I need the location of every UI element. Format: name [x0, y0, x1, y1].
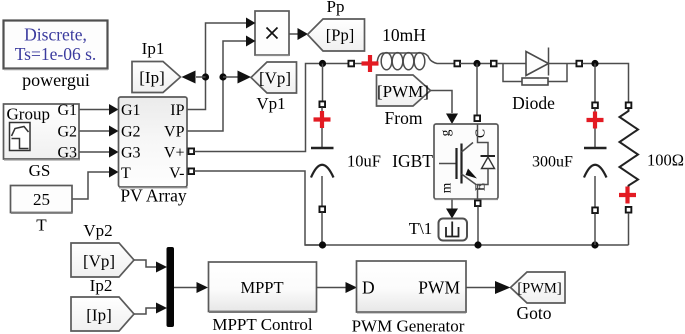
- node bottom emitter junction: [474, 241, 481, 248]
- wire MPPT to PWM generator: [317, 282, 358, 293]
- terminator T\1: [439, 219, 468, 241]
- svg-text:PWM Generator: PWM Generator: [352, 317, 465, 334]
- red plus 10uF: [314, 111, 331, 128]
- port square IGBT collector: [474, 115, 480, 121]
- node VP junction: [219, 73, 226, 80]
- svg-text:[PWM]: [PWM]: [517, 281, 561, 297]
- wire Vp2 to mux: [134, 260, 167, 273]
- svg-text:[Ip]: [Ip]: [86, 306, 111, 325]
- svg-text:Pp: Pp: [327, 0, 345, 16]
- red plus resistor: [619, 187, 636, 204]
- PWM generator block: [357, 261, 467, 312]
- svg-text:C: C: [473, 129, 488, 138]
- wire emitter to bottom rail: [477, 207, 479, 246]
- svg-text:25: 25: [33, 190, 50, 209]
- from tag Ip2: [71, 297, 134, 331]
- goto tag PWM: [511, 272, 566, 303]
- wire Ip2 to mux: [134, 303, 167, 315]
- node bottom 10uF junction: [319, 241, 326, 248]
- svg-text:Ip1: Ip1: [142, 39, 165, 58]
- constant block T=25: [11, 186, 73, 214]
- capacitor C2 300uF: [584, 109, 607, 208]
- resistor R1 100 ohm: [620, 109, 639, 189]
- red plus 300uF: [587, 112, 604, 129]
- wire PWM generator to goto: [466, 281, 511, 294]
- capacitor C1 10uF: [311, 108, 334, 207]
- svg-text:IP: IP: [170, 102, 184, 119]
- wire node to multiply input 1: [206, 23, 247, 77]
- wire multiply to Pp goto: [289, 28, 308, 40]
- svg-text:G3: G3: [121, 145, 141, 162]
- port square 10uF top: [319, 101, 325, 107]
- wire output node down to 300uF: [594, 64, 596, 102]
- wire node to Vp1 goto: [223, 71, 251, 84]
- svg-text:G3: G3: [57, 145, 77, 162]
- wire resistor to bottom rail: [628, 213, 630, 245]
- diode D1: [497, 48, 577, 86]
- wire node to Ip1 goto: [182, 71, 206, 84]
- svg-text:Vp1: Vp1: [256, 94, 285, 113]
- svg-text:100Ω: 100Ω: [647, 151, 684, 170]
- wire 300uF to bottom rail: [594, 214, 596, 246]
- svg-text:powergui: powergui: [22, 70, 90, 90]
- PV V- port: [188, 168, 194, 174]
- svg-text:[Pp]: [Pp]: [326, 26, 354, 45]
- svg-text:GS: GS: [29, 161, 51, 180]
- PV V+ port: [188, 148, 194, 154]
- svg-text:[Vp]: [Vp]: [259, 69, 291, 88]
- port square series: [348, 61, 354, 67]
- port square after inductor: [454, 61, 460, 67]
- svg-text:Goto: Goto: [517, 303, 552, 323]
- svg-text:Group: Group: [7, 105, 50, 124]
- IGBT Q1 block: [434, 124, 498, 199]
- port square resistor bottom: [626, 207, 632, 213]
- wire PWM from tag to IGBT gate: [431, 91, 459, 125]
- goto tag Vp1: [251, 62, 297, 93]
- wire V+ to top rail: [195, 64, 323, 152]
- mux: [167, 247, 175, 327]
- wire G3: [80, 147, 119, 158]
- svg-text:T\1: T\1: [409, 219, 433, 238]
- wire mux to MPPT: [174, 282, 208, 293]
- wire inductor to diode: [460, 63, 492, 65]
- port square 10uF bottom: [319, 206, 325, 212]
- inductor 10mH: [370, 53, 455, 70]
- wire V- to bottom rail: [195, 171, 323, 245]
- svg-text:G1: G1: [121, 102, 141, 119]
- signal builder block GS: [4, 102, 81, 162]
- svg-text:10uF: 10uF: [347, 152, 381, 171]
- svg-text:[Vp]: [Vp]: [83, 252, 115, 271]
- svg-text:Discrete,: Discrete,: [24, 25, 87, 45]
- svg-text:PV Array: PV Array: [120, 186, 187, 206]
- port square resistor top: [626, 102, 632, 108]
- wire IP output to node: [188, 77, 206, 110]
- wire IGBT m to terminator: [446, 200, 458, 219]
- svg-text:From: From: [385, 108, 423, 128]
- svg-text:V-: V-: [169, 165, 184, 182]
- svg-text:Diode: Diode: [512, 93, 555, 113]
- wire T constant to PV T input: [73, 167, 119, 200]
- svg-text:G2: G2: [121, 124, 141, 141]
- svg-text:D: D: [362, 278, 375, 298]
- wire G1: [80, 104, 119, 115]
- port square before diode: [491, 61, 497, 67]
- node output capacitor branch: [591, 60, 598, 67]
- svg-text:T: T: [36, 216, 47, 235]
- node top rail capacitor branch: [319, 60, 326, 67]
- svg-text:g: g: [438, 129, 453, 136]
- svg-text:10mH: 10mH: [382, 25, 426, 45]
- svg-text:Ip2: Ip2: [90, 276, 113, 295]
- wire node to multiply input 2: [223, 41, 247, 77]
- goto tag Ip1: [132, 62, 181, 93]
- svg-text:300uF: 300uF: [532, 154, 573, 171]
- wire diode to load corner: [583, 64, 629, 103]
- powergui block (Discrete solver): [4, 21, 109, 70]
- red plus inductor: [362, 55, 379, 72]
- svg-text:G1: G1: [57, 102, 77, 119]
- from tag PWM (gate drive): [377, 75, 431, 106]
- wire top rail to IGBT collector: [476, 64, 478, 116]
- MPPT controller block: [209, 262, 317, 312]
- port square IGBT emitter: [475, 200, 481, 206]
- svg-text:[Ip]: [Ip]: [139, 68, 164, 87]
- svg-text:V+: V+: [164, 145, 185, 162]
- svg-text:PWM: PWM: [418, 278, 460, 298]
- svg-text:m: m: [439, 182, 454, 193]
- port square 300uF bottom: [592, 207, 598, 213]
- node bottom output cap junction: [591, 241, 598, 248]
- wire G2: [80, 126, 119, 137]
- svg-text:[PWM]: [PWM]: [377, 82, 429, 101]
- multiply block: [246, 11, 289, 55]
- svg-text:IGBT: IGBT: [392, 151, 433, 171]
- PV Array block: [119, 97, 188, 188]
- wire VP output to node: [188, 77, 224, 131]
- port square 300uF top: [592, 102, 598, 108]
- from tag Vp2: [71, 243, 134, 277]
- wire 10uF to bottom rail: [321, 213, 323, 246]
- bottom rail wire: [305, 244, 629, 246]
- port square after diode: [576, 61, 582, 67]
- wire rail to 10uF capacitor: [322, 64, 324, 101]
- node IGBT branch: [473, 60, 480, 67]
- svg-text:MPPT Control: MPPT Control: [212, 315, 313, 334]
- goto tag Pp: [308, 19, 365, 51]
- svg-text:MPPT: MPPT: [240, 278, 283, 297]
- node IP junction: [202, 73, 209, 80]
- svg-text:G2: G2: [57, 124, 77, 141]
- svg-text:Ts=1e-06 s.: Ts=1e-06 s.: [15, 44, 97, 64]
- svg-text:Vp2: Vp2: [83, 221, 112, 240]
- top rail wire to inductor: [323, 63, 363, 65]
- svg-text:T: T: [121, 165, 131, 182]
- svg-text:VP: VP: [164, 124, 185, 141]
